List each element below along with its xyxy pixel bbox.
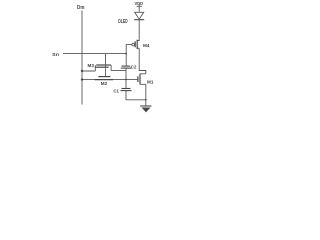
svg-text:M3: M3	[88, 63, 95, 68]
svg-text:M1: M1	[147, 79, 154, 84]
svg-text:C1: C1	[113, 88, 119, 93]
svg-text:M4: M4	[143, 43, 150, 48]
svg-text:Sn: Sn	[52, 52, 59, 58]
svg-text:Dm: Dm	[77, 5, 85, 11]
svg-text:VDD: VDD	[135, 1, 144, 7]
svg-text:C2: C2	[131, 64, 137, 69]
svg-text:OLED: OLED	[118, 19, 128, 25]
svg-text:M2: M2	[101, 81, 108, 86]
